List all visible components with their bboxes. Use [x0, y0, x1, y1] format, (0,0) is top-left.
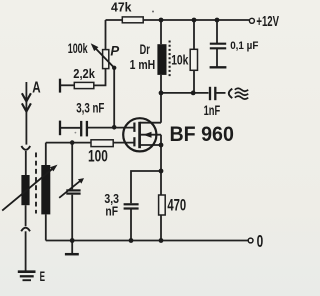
svg-text:nF: nF [105, 204, 118, 219]
svg-text:2,2k: 2,2k [73, 66, 95, 81]
svg-text:A: A [32, 79, 41, 96]
svg-text:E: E [40, 268, 45, 284]
svg-text:470: 470 [167, 196, 186, 215]
svg-text:1 mH: 1 mH [130, 57, 156, 72]
svg-text:P: P [110, 44, 120, 59]
svg-text:100k: 100k [68, 41, 88, 56]
svg-text:+12V: +12V [256, 13, 279, 30]
svg-text:3,3 nF: 3,3 nF [76, 100, 105, 116]
svg-text:BF 960: BF 960 [170, 122, 234, 146]
svg-text:100: 100 [88, 146, 108, 165]
svg-text:0,1 µF: 0,1 µF [230, 40, 259, 52]
svg-text:47k: 47k [111, 0, 132, 15]
svg-text:1nF: 1nF [204, 102, 221, 118]
svg-text:10k: 10k [171, 51, 188, 67]
svg-text:0: 0 [257, 231, 264, 251]
svg-text:Dr: Dr [140, 41, 151, 57]
